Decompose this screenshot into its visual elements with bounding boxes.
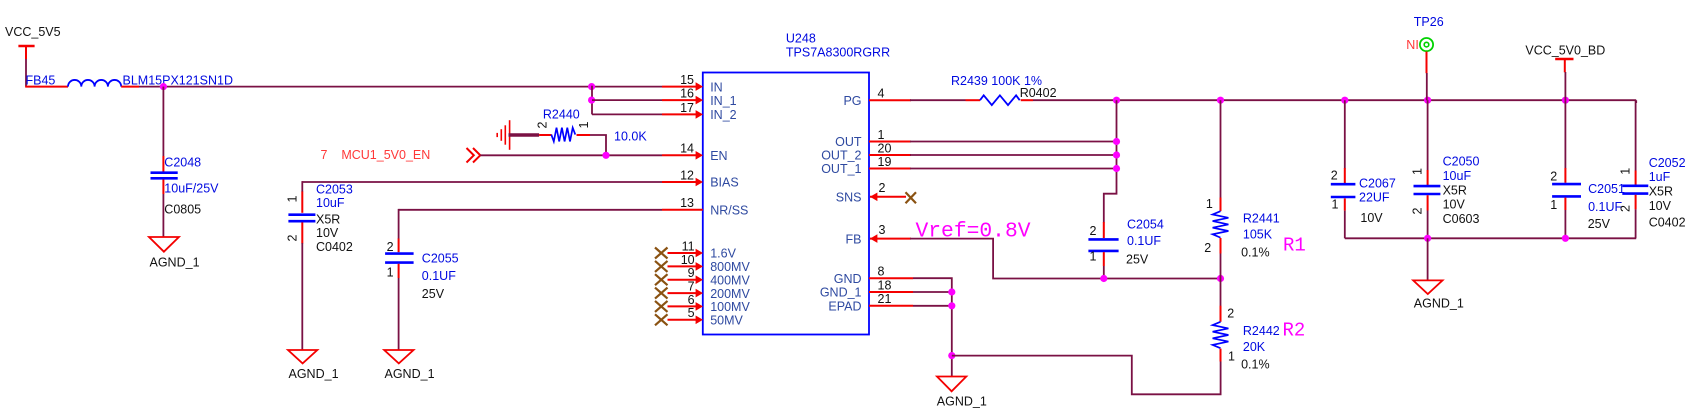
resistor R2439 (951, 74, 1057, 105)
svg-text:C2067: C2067 (1359, 177, 1396, 191)
wire NR/SS net (399, 209, 662, 211)
wire GND_1 pin 18 (913, 291, 952, 293)
node junction IN_1 branch (588, 83, 595, 90)
svg-text:0.1UF: 0.1UF (1127, 234, 1161, 248)
pin 9 400MV no-connect (655, 266, 750, 287)
test point TP26 (1406, 15, 1443, 73)
svg-text:TPS7A8300RGRR: TPS7A8300RGRR (786, 45, 890, 59)
wire bottom rail (1345, 237, 1636, 239)
svg-text:25V: 25V (1126, 252, 1149, 266)
svg-text:NR/SS: NR/SS (710, 204, 748, 218)
svg-text:AGND_1: AGND_1 (937, 394, 987, 408)
svg-text:10.0K: 10.0K (614, 129, 647, 143)
ground symbol (R2440 left, rotated bars) (497, 120, 509, 150)
svg-text:C2054: C2054 (1127, 218, 1164, 232)
svg-text:EPAD: EPAD (828, 300, 861, 314)
svg-text:C2053: C2053 (316, 182, 353, 196)
pin 11 1.6V no-connect (655, 239, 737, 260)
svg-text:R2442: R2442 (1243, 324, 1280, 338)
svg-text:FB45: FB45 (26, 74, 56, 88)
wire vertical bus to IN_1/IN_2 (591, 86, 593, 115)
svg-text:800MV: 800MV (710, 260, 750, 274)
svg-text:0.1UF: 0.1UF (1588, 200, 1622, 214)
svg-text:7 MCU1_5V0_EN: 7 MCU1_5V0_EN (321, 148, 431, 162)
svg-text:11: 11 (682, 239, 695, 253)
svg-text:2: 2 (1410, 208, 1424, 215)
svg-text:19: 19 (878, 155, 892, 169)
svg-text:R2440: R2440 (543, 108, 580, 122)
pin 10 800MV no-connect (655, 253, 750, 274)
svg-text:C0402: C0402 (1649, 215, 1686, 229)
svg-text:1: 1 (1228, 349, 1235, 363)
node junction OUT/pin19 (1113, 165, 1120, 172)
wire NR/SS corner down (398, 209, 400, 239)
svg-text:GND_1: GND_1 (820, 286, 862, 300)
power symbol VCC_5V5 (5, 25, 61, 59)
pin 3 FB (846, 223, 911, 246)
svg-text:22UF: 22UF (1359, 190, 1390, 204)
svg-text:10V: 10V (1443, 198, 1466, 212)
svg-text:20: 20 (878, 141, 892, 155)
svg-text:14: 14 (680, 142, 694, 156)
svg-text:3: 3 (879, 223, 886, 237)
wire FB net (910, 239, 1221, 279)
svg-text:4: 4 (878, 87, 885, 101)
capacitor C2052 (1618, 156, 1685, 230)
wire C2055 to ground (398, 278, 400, 350)
off-page connector MCU1_5V0_EN (467, 148, 481, 163)
pin 4 PG (843, 87, 911, 108)
U248 body (703, 73, 869, 335)
wire C2051 to bottom rail (1564, 210, 1566, 238)
svg-text:C0603: C0603 (1443, 212, 1480, 226)
svg-text:AGND_1: AGND_1 (150, 256, 200, 270)
ground AGND_1 (output bank) (1413, 280, 1464, 310)
svg-text:1: 1 (1618, 168, 1632, 175)
svg-text:2: 2 (1550, 170, 1557, 184)
ground AGND_1 (C2055) (384, 350, 434, 381)
wire OUT_1 pin 19 (910, 168, 1117, 170)
wire bottom rail to ground (1427, 238, 1429, 280)
svg-text:R2441: R2441 (1243, 212, 1280, 226)
node junction input/C2048 (160, 83, 167, 90)
pin 20 OUT_2 (821, 141, 911, 162)
svg-text:C2052: C2052 (1649, 156, 1686, 170)
wire GND pin 8 (913, 278, 952, 376)
ground AGND_1 (C2053) (288, 350, 339, 381)
wire PG rail to top-right (1033, 99, 1636, 101)
svg-text:9: 9 (688, 266, 695, 280)
capacitor C2048 (151, 156, 220, 217)
capacitor C2050 (1410, 155, 1479, 226)
pin 7 200MV no-connect (655, 280, 750, 301)
svg-text:20K: 20K (1243, 340, 1266, 354)
wire thick stub R2440 pin 2 (509, 133, 540, 137)
svg-text:R2: R2 (1283, 320, 1306, 342)
svg-text:0.1%: 0.1% (1241, 357, 1270, 371)
node junction rail/OUT bus (1113, 97, 1120, 104)
node junction OUT/pin20 (1113, 151, 1120, 158)
wire C2052 to bottom rail (1635, 209, 1638, 238)
svg-text:400MV: 400MV (710, 273, 750, 287)
svg-text:AGND_1: AGND_1 (385, 367, 435, 381)
svg-text:AGND_1: AGND_1 (1414, 296, 1464, 310)
svg-text:PG: PG (843, 94, 861, 108)
svg-text:TP26: TP26 (1414, 15, 1444, 29)
node junction rail/TP26 (1424, 97, 1431, 104)
svg-text:U248: U248 (786, 32, 816, 46)
wire C2048 branch (162, 87, 164, 157)
svg-text:OUT_2: OUT_2 (821, 149, 861, 163)
pin 12 BIAS (662, 168, 739, 189)
node junction OUT/pin1 (1113, 138, 1120, 145)
node junction FB/R2441 (1217, 275, 1224, 282)
wire EPAD pin 21 (913, 305, 952, 307)
svg-text:1: 1 (577, 122, 591, 129)
wire C2054 to FB net (1103, 266, 1105, 279)
svg-text:OUT_1: OUT_1 (821, 162, 861, 176)
node junction FB/C2054 (1100, 275, 1107, 282)
svg-text:10V: 10V (1360, 211, 1383, 225)
pin 8 GND (834, 265, 913, 286)
svg-text:100MV: 100MV (710, 300, 750, 314)
svg-text:2: 2 (1090, 224, 1097, 238)
wire C2067 to bottom rail (1344, 211, 1346, 239)
svg-text:1: 1 (387, 265, 394, 279)
svg-text:NI: NI (1406, 38, 1419, 52)
node junction IN_1 (588, 97, 595, 104)
svg-text:1: 1 (1090, 250, 1097, 264)
svg-text:13: 13 (680, 196, 694, 210)
node junction rail/R2441 (1217, 97, 1224, 104)
svg-text:2: 2 (1227, 306, 1234, 320)
svg-text:7: 7 (688, 280, 695, 294)
wire C2051 top (1564, 100, 1566, 168)
svg-text:200MV: 200MV (710, 287, 750, 301)
wire C2052 top (1635, 100, 1638, 171)
svg-text:VCC_5V0_BD: VCC_5V0_BD (1525, 44, 1605, 58)
svg-text:18: 18 (878, 278, 892, 292)
svg-text:EN: EN (710, 149, 727, 163)
pin 21 EPAD (828, 292, 913, 313)
wire R2441 top (1220, 100, 1222, 198)
svg-text:2: 2 (536, 122, 550, 129)
pin 14 EN (662, 142, 728, 163)
resistor R2440 (536, 108, 648, 144)
wire OUT bus vertical (1104, 100, 1117, 222)
pin 17 IN_2 (662, 101, 737, 122)
svg-text:6: 6 (688, 293, 695, 307)
wire BIAS corner down (301, 181, 303, 192)
svg-text:C2050: C2050 (1443, 155, 1480, 169)
pin 1 OUT (835, 128, 911, 149)
inductor FB45 (68, 80, 121, 87)
wire BIAS net (302, 181, 662, 183)
wire inductor right stub (121, 86, 139, 88)
wire R2440 to EN (590, 135, 606, 155)
svg-text:50MV: 50MV (710, 314, 743, 328)
svg-text:SNS: SNS (836, 191, 862, 205)
svg-text:105K: 105K (1243, 227, 1273, 241)
wire R2439 left stub (966, 99, 981, 101)
svg-text:17: 17 (680, 101, 694, 115)
svg-text:8: 8 (878, 265, 885, 279)
svg-text:1: 1 (1206, 197, 1213, 211)
pin 16 IN_1 (662, 87, 737, 108)
svg-text:BIAS: BIAS (710, 176, 739, 190)
svg-text:0.1UF: 0.1UF (422, 269, 456, 283)
node junction EPAD (948, 302, 955, 309)
wire GND branch to R2442 (952, 356, 1221, 395)
wire VCC_5V0_BD to rail (1564, 72, 1566, 100)
svg-text:IN: IN (710, 80, 723, 94)
node junction rail/C2067 (1341, 97, 1348, 104)
wire R2440 left stub (539, 134, 551, 136)
svg-text:R0402: R0402 (1020, 86, 1057, 100)
wire FB45 left stub (25, 86, 68, 88)
svg-text:2: 2 (286, 235, 300, 242)
node junction GND branch (948, 352, 955, 359)
wire R2440 right stub (577, 134, 591, 136)
svg-text:25V: 25V (1588, 217, 1611, 231)
node junction bottom rail/ground (1424, 235, 1431, 242)
svg-text:12: 12 (680, 168, 694, 182)
svg-text:2: 2 (1331, 169, 1338, 183)
wire C2050 top (1427, 100, 1429, 170)
node junction bottom rail/C2051 (1562, 235, 1569, 242)
wire OUT pin 1 (910, 141, 1117, 143)
svg-text:10uF: 10uF (1443, 169, 1472, 183)
svg-text:10uF/25V: 10uF/25V (164, 182, 219, 196)
wire EN net (480, 154, 662, 156)
pin 5 50MV no-connect (655, 306, 744, 327)
svg-text:1: 1 (286, 196, 300, 203)
svg-text:BLM15PX121SN1D: BLM15PX121SN1D (123, 74, 233, 88)
capacitor C2055 (385, 239, 459, 302)
wire R2441 bottom (1220, 254, 1222, 279)
svg-text:R1: R1 (1283, 234, 1306, 256)
wire OUT_2 pin 20 (910, 154, 1117, 156)
svg-text:1: 1 (1410, 168, 1424, 175)
svg-text:C0402: C0402 (316, 240, 353, 254)
svg-text:X5R: X5R (1649, 184, 1673, 198)
svg-text:AGND_1: AGND_1 (289, 367, 339, 381)
wire R2439 right stub (1021, 99, 1033, 101)
svg-text:IN_2: IN_2 (710, 108, 736, 122)
svg-text:X5R: X5R (1443, 184, 1467, 198)
node junction GND_1 (948, 288, 955, 295)
pin 15 IN (662, 73, 723, 94)
svg-text:1uF: 1uF (1649, 170, 1671, 184)
svg-text:2: 2 (1618, 205, 1632, 212)
svg-text:C2048: C2048 (164, 156, 201, 170)
svg-text:2: 2 (879, 181, 886, 195)
svg-text:X5R: X5R (316, 213, 340, 227)
svg-text:0.1%: 0.1% (1241, 246, 1270, 260)
wire to pin 16 (592, 99, 662, 101)
wire to pin 17 (592, 113, 662, 115)
svg-text:10V: 10V (1649, 199, 1672, 213)
pin 6 100MV no-connect (655, 293, 750, 314)
svg-text:16: 16 (680, 87, 694, 101)
svg-text:IN_1: IN_1 (710, 94, 736, 108)
svg-text:2: 2 (1204, 241, 1211, 255)
svg-text:C2055: C2055 (422, 251, 459, 265)
wire C2067 top (1344, 100, 1346, 168)
pin 19 OUT_1 (821, 155, 911, 176)
svg-text:1: 1 (878, 128, 885, 142)
svg-text:GND: GND (834, 272, 862, 286)
wire C2050 to bottom rail (1427, 211, 1429, 239)
svg-text:10uF: 10uF (316, 196, 345, 210)
capacitor C2054 (1088, 218, 1163, 267)
svg-text:1.6V: 1.6V (710, 247, 736, 261)
power symbol VCC_5V0_BD (1525, 44, 1605, 73)
wire PG to R2439 (910, 99, 966, 101)
svg-text:1: 1 (1550, 198, 1557, 212)
wire input net to pin 15 (139, 86, 662, 88)
capacitor C2051 (1550, 168, 1625, 231)
svg-text:2: 2 (387, 240, 394, 254)
pin 18 GND_1 (820, 278, 913, 299)
ground AGND_1 (C2048) (149, 237, 200, 270)
svg-text:5: 5 (688, 306, 695, 320)
svg-text:10V: 10V (316, 226, 339, 240)
wire TP26 to rail (1426, 73, 1428, 100)
wire C2048 to ground (162, 194, 164, 237)
svg-text:C2051: C2051 (1588, 182, 1625, 196)
pin 13 NR/SS (662, 196, 748, 217)
node junction EN/R2440 (602, 152, 609, 159)
svg-text:21: 21 (878, 292, 892, 306)
wire R2442 top (1220, 279, 1222, 307)
svg-text:15: 15 (680, 73, 694, 87)
ground AGND_1 (U248) (937, 377, 987, 409)
svg-text:Vref=0.8V: Vref=0.8V (916, 220, 1031, 244)
svg-text:VCC_5V5: VCC_5V5 (5, 25, 61, 39)
wire VCC_5V5 to FB45 (25, 59, 27, 87)
svg-text:1: 1 (1332, 198, 1339, 212)
resistor R2442 (1213, 306, 1306, 372)
svg-text:OUT: OUT (835, 135, 862, 149)
svg-text:FB: FB (846, 232, 862, 246)
capacitor C2053 (286, 182, 353, 254)
svg-text:C0805: C0805 (164, 202, 201, 216)
capacitor C2067 (1331, 168, 1396, 225)
pin 2 SNS no-connect (836, 181, 916, 204)
resistor R2441 (1204, 197, 1306, 260)
wire C2053 to ground (301, 243, 303, 350)
node junction rail/VCC_5V0_BD (1562, 97, 1569, 104)
svg-text:25V: 25V (422, 287, 445, 301)
svg-text:10: 10 (681, 253, 695, 267)
